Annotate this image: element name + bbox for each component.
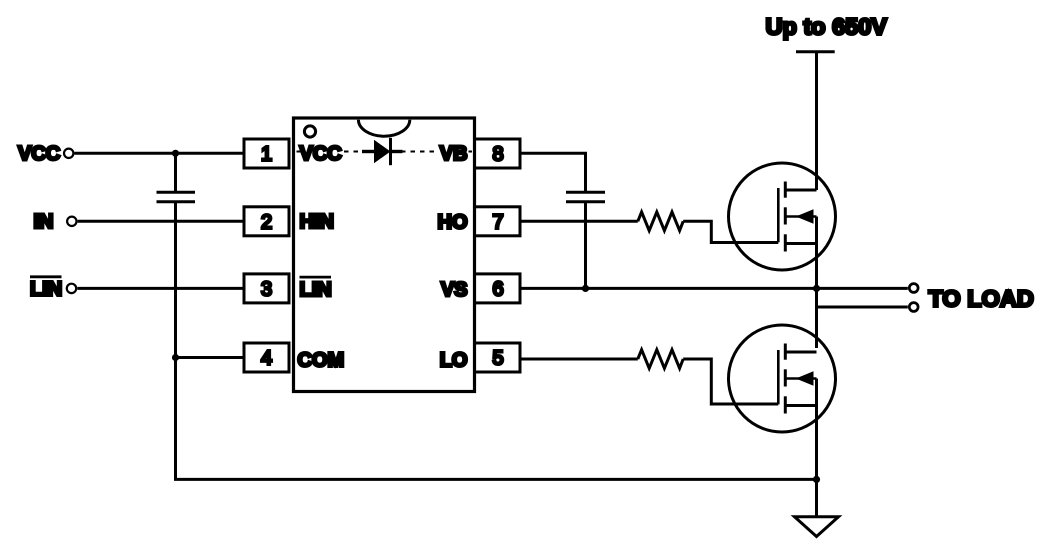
svg-text:2: 2 [261, 212, 272, 234]
wire VCC rail down to capacitor C1 [174, 153, 177, 191]
wire LO pin 5 to gate resistor [522, 358, 638, 361]
wire LIN terminal to pin 3 [77, 287, 244, 290]
capacitor C1 [157, 192, 196, 202]
svg-text:6: 6 [492, 279, 503, 301]
svg-text:Up to 650V: Up to 650V [766, 14, 888, 40]
wire HO pin 7 to gate resistor [522, 220, 638, 223]
wire C2 to VS node [584, 203, 587, 288]
svg-text:3: 3 [261, 279, 272, 301]
junction bottom rail / ground [813, 476, 820, 483]
svg-text:IN: IN [34, 211, 54, 233]
pin 1 box [244, 139, 289, 168]
junction VCC/C1 [172, 150, 179, 157]
pin 1 indicator [304, 126, 315, 137]
wire VCC terminal to pin 1 [75, 152, 245, 155]
svg-text:8: 8 [492, 144, 503, 166]
wire HV rail to Q1 drain [815, 52, 818, 190]
wire Q2 source to ground [815, 379, 818, 516]
svg-text:VB: VB [440, 143, 468, 165]
HV rail bar [796, 50, 835, 53]
wire VB pin 8 to bootstrap capacitor [522, 153, 586, 191]
label VCC pin 1 [300, 141, 344, 165]
junction C1/COM [172, 354, 179, 361]
transistor Q2 low-side MOSFET [729, 325, 836, 432]
transistor Q1 high-side MOSFET [729, 163, 836, 270]
resistor R2 [638, 350, 683, 369]
wire lower load line [817, 306, 908, 309]
junction C2/VS [582, 285, 589, 292]
wire Q1 source to Q2 drain [815, 217, 818, 349]
resistor R1 [638, 212, 683, 231]
svg-text:COM: COM [298, 350, 345, 372]
terminal LIN [30, 277, 76, 301]
pin 5 box [475, 343, 521, 372]
svg-text:5: 5 [492, 348, 503, 370]
svg-text:HIN: HIN [300, 211, 334, 233]
svg-text:LIN: LIN [300, 279, 332, 301]
wire R1 to Q1 gate [683, 221, 778, 242]
terminal TO LOAD upper [909, 284, 918, 293]
wire R2 to Q2 gate [683, 359, 778, 404]
wire COM node to pin 4 [176, 356, 245, 359]
wire capacitor C1 down to COM and bottom rail [176, 203, 817, 479]
terminal VCC [18, 143, 73, 165]
capacitor C2 bootstrap [566, 192, 605, 202]
bootstrap diode D1 [362, 138, 403, 165]
svg-text:HO: HO [438, 212, 468, 234]
op-amp U1 gate driver IC body [294, 118, 475, 392]
terminal TO LOAD lower [909, 303, 918, 312]
svg-text:VS: VS [441, 279, 468, 301]
terminal IN [34, 211, 77, 233]
pin 4 box [244, 343, 289, 372]
svg-text:LIN: LIN [30, 279, 62, 301]
label LIN pin 3 [300, 277, 332, 301]
svg-text:VCC: VCC [300, 143, 342, 165]
pin 3 box [244, 274, 289, 303]
svg-text:4: 4 [261, 348, 272, 370]
svg-text:1: 1 [261, 144, 272, 166]
pin 6 box [475, 274, 521, 303]
wire IN terminal to pin 2 [78, 220, 244, 223]
wire VS pin 6 to load terminal [522, 287, 908, 290]
label VB pin 8 [437, 141, 469, 165]
svg-text:7: 7 [492, 212, 503, 234]
junction VS/half-bridge [813, 285, 820, 292]
pin 8 box [475, 139, 521, 168]
svg-text:TO LOAD: TO LOAD [929, 285, 1034, 311]
pin 7 box [475, 207, 521, 236]
dashed net VCC to VB [297, 151, 473, 153]
svg-text:VCC: VCC [18, 143, 60, 165]
pin 2 box [244, 207, 289, 236]
svg-text:LO: LO [440, 350, 468, 372]
IC notch [358, 120, 409, 137]
ground [795, 517, 839, 537]
